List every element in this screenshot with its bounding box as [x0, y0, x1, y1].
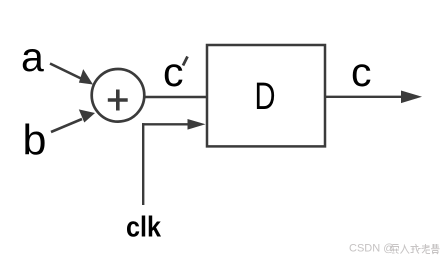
adder plus sign	[108, 90, 128, 111]
hanzi 费	[431, 244, 440, 254]
svg-text:a: a	[21, 34, 44, 80]
svg-text:clk: clk	[126, 212, 162, 244]
D flip-flop box	[207, 45, 325, 146]
wire adder to D box	[144, 96, 207, 98]
clk wire horizontal with arrow into box	[142, 119, 206, 130]
wire arrow b to adder	[51, 109, 95, 132]
hanzi 入	[401, 245, 410, 254]
svg-text:-: -	[418, 243, 422, 255]
hanzi 老	[422, 244, 431, 254]
wire arrow a to adder	[50, 64, 93, 85]
hanzi 式	[411, 244, 420, 254]
svg-text:D: D	[255, 76, 276, 118]
hanzi 嵌	[391, 245, 399, 254]
svg-text:c: c	[163, 49, 184, 95]
adder U1 (circle)	[92, 69, 145, 122]
output wire arrow c	[325, 91, 422, 104]
clk wire vertical	[142, 123, 144, 205]
svg-text:b: b	[23, 117, 47, 165]
watermark	[349, 243, 440, 255]
svg-text:c: c	[351, 49, 372, 95]
svg-text:CSDN @: CSDN @	[349, 243, 394, 255]
prime mark of c'	[183, 57, 188, 66]
